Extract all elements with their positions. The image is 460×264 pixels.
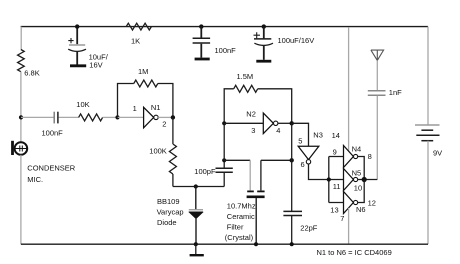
node junction mic row on left rail xyxy=(19,115,23,119)
wire mic row left xyxy=(21,116,54,118)
inverter N2 xyxy=(246,110,280,135)
node junction dot top rail right xyxy=(262,24,266,28)
svg-text:1K: 1K xyxy=(131,37,140,46)
svg-text:6: 6 xyxy=(301,160,305,169)
wire N2 output xyxy=(278,122,292,124)
inverter N5 xyxy=(333,168,362,192)
node junction N1 output xyxy=(171,115,175,119)
wire bottom of 100K to 100pF xyxy=(173,186,224,188)
svg-text:N4: N4 xyxy=(352,144,362,153)
wire N5 output to 1nF node xyxy=(358,179,378,181)
svg-text:MIC.: MIC. xyxy=(27,175,43,184)
wire N6 output xyxy=(358,180,365,203)
svg-text:Diode: Diode xyxy=(157,218,177,227)
node junction N2 input xyxy=(222,121,226,125)
antenna xyxy=(371,50,384,60)
svg-text:N1 to N6 = IC CD4069: N1 to N6 = IC CD4069 xyxy=(317,248,392,257)
wire pin7 ground xyxy=(348,208,350,244)
svg-text:10K: 10K xyxy=(76,100,89,109)
node junction N2 output xyxy=(290,121,294,125)
wire antenna lead xyxy=(376,60,378,90)
node junction crystal to rail xyxy=(254,242,258,246)
wire N1 output xyxy=(158,116,173,118)
resistor R 1.5M feedback loop xyxy=(224,72,292,123)
node junction varicap to rail xyxy=(194,242,198,246)
svg-text:14: 14 xyxy=(332,131,340,140)
ground symbol on bottom rail xyxy=(190,244,204,255)
svg-text:10.7Mhz: 10.7Mhz xyxy=(227,202,256,211)
capacitor C 22pF xyxy=(283,211,317,244)
svg-text:1M: 1M xyxy=(138,67,148,76)
svg-text:N5: N5 xyxy=(352,168,362,177)
svg-text:9V: 9V xyxy=(433,148,442,157)
capacitor C 100nF decoupling top xyxy=(193,27,237,58)
wire pin14 supply xyxy=(348,27,350,150)
crystal X1 10.7MHz ceramic filter xyxy=(225,191,265,244)
svg-text:2: 2 xyxy=(162,119,166,128)
svg-text:10: 10 xyxy=(354,183,362,192)
wire crystal left lead xyxy=(224,159,250,161)
svg-text:(Crystal): (Crystal) xyxy=(225,233,254,242)
wire bottom ground rail xyxy=(21,243,428,245)
wire crystal right lead xyxy=(261,159,292,161)
node junction dot top rail left xyxy=(75,24,79,28)
node junction crystal left xyxy=(222,158,226,162)
svg-text:N3: N3 xyxy=(313,131,323,140)
node junction varicap tap xyxy=(194,184,198,188)
resistor R 6.8K xyxy=(18,50,40,78)
node junction buffer inputs xyxy=(327,177,331,181)
wire mic row right xyxy=(103,116,118,118)
battery B1 9V xyxy=(415,125,442,157)
wire N2 output to N3 input xyxy=(292,123,309,146)
capacitor C 100nF audio coupling xyxy=(42,112,64,138)
svg-text:16V: 16V xyxy=(89,61,102,70)
svg-text:N1: N1 xyxy=(151,103,161,112)
resistor R 10K xyxy=(76,100,102,121)
capacitor C 1nF xyxy=(368,88,402,97)
ground bar under 100uF xyxy=(256,60,271,63)
svg-text:4: 4 xyxy=(276,126,280,135)
wire N1 input xyxy=(118,116,144,118)
wire 1nF to output node xyxy=(376,96,378,180)
wire buffer input frame xyxy=(329,157,344,203)
svg-text:8: 8 xyxy=(368,152,372,161)
svg-text:Ceramic: Ceramic xyxy=(227,212,255,221)
wire battery bottom lead xyxy=(427,141,429,245)
capacitor C 10uF/16V electrolytic xyxy=(68,27,108,70)
svg-text:13: 13 xyxy=(330,206,338,215)
svg-text:1nF: 1nF xyxy=(389,88,402,97)
svg-text:6.8K: 6.8K xyxy=(24,69,39,78)
svg-text:N6: N6 xyxy=(356,205,366,214)
wire N2 input xyxy=(224,122,263,124)
svg-text:11: 11 xyxy=(333,182,341,191)
svg-text:100K: 100K xyxy=(149,146,167,155)
svg-text:5: 5 xyxy=(298,137,302,146)
node junction crystal right xyxy=(290,158,294,162)
inverter N1 xyxy=(133,103,167,128)
svg-text:1.5M: 1.5M xyxy=(237,72,254,81)
resistor R 1K xyxy=(126,23,151,45)
inverter N6 xyxy=(330,192,376,215)
svg-text:Varycap: Varycap xyxy=(157,207,184,216)
svg-text:3: 3 xyxy=(251,126,255,135)
wire left rail lower segment xyxy=(20,155,22,244)
svg-text:7: 7 xyxy=(340,214,344,223)
capacitor C 100uF/16V electrolytic xyxy=(254,27,315,60)
wire left rail middle segment xyxy=(20,72,22,143)
inverter N3 pointing down xyxy=(298,131,323,170)
wire mic row mid xyxy=(59,116,79,118)
wire battery branch from top rail xyxy=(427,27,429,125)
wire N3 output to buffer frame xyxy=(309,164,329,180)
svg-text:1: 1 xyxy=(133,104,137,113)
wire N4 output xyxy=(358,157,365,180)
svg-text:100nF: 100nF xyxy=(215,46,237,55)
varicap diode D1 BB109 xyxy=(157,187,203,245)
wire left rail upper segment xyxy=(20,27,22,50)
ground bar under 100nF xyxy=(195,58,210,61)
node junction 22pF to rail xyxy=(290,242,294,246)
inverter N4 xyxy=(333,144,372,167)
wire junction 100pF top to N2 input vertical xyxy=(223,123,225,160)
wire top supply rail xyxy=(21,26,428,28)
svg-text:100pF: 100pF xyxy=(194,167,216,176)
svg-text:Filter: Filter xyxy=(227,222,244,231)
wire N2 output down to 22pF xyxy=(291,123,293,211)
svg-text:22pF: 22pF xyxy=(300,224,318,233)
svg-text:100uF/16V: 100uF/16V xyxy=(278,36,315,45)
resistor R 1M feedback loop xyxy=(118,67,173,117)
svg-text:N2: N2 xyxy=(246,110,256,119)
condenser mic MIC1 xyxy=(13,141,76,184)
svg-text:CONDENSER: CONDENSER xyxy=(27,163,76,172)
node junction buffer outputs xyxy=(362,177,367,182)
svg-text:BB109: BB109 xyxy=(157,197,180,206)
capacitor C 100pF xyxy=(194,160,233,186)
svg-text:9: 9 xyxy=(333,148,337,157)
svg-text:12: 12 xyxy=(368,198,376,207)
svg-text:100nF: 100nF xyxy=(42,129,64,138)
node junction dot top rail mid xyxy=(199,24,203,28)
resistor R 100K xyxy=(149,117,176,186)
node junction N1 input xyxy=(115,115,119,119)
ground bar under 10uF xyxy=(70,64,86,67)
